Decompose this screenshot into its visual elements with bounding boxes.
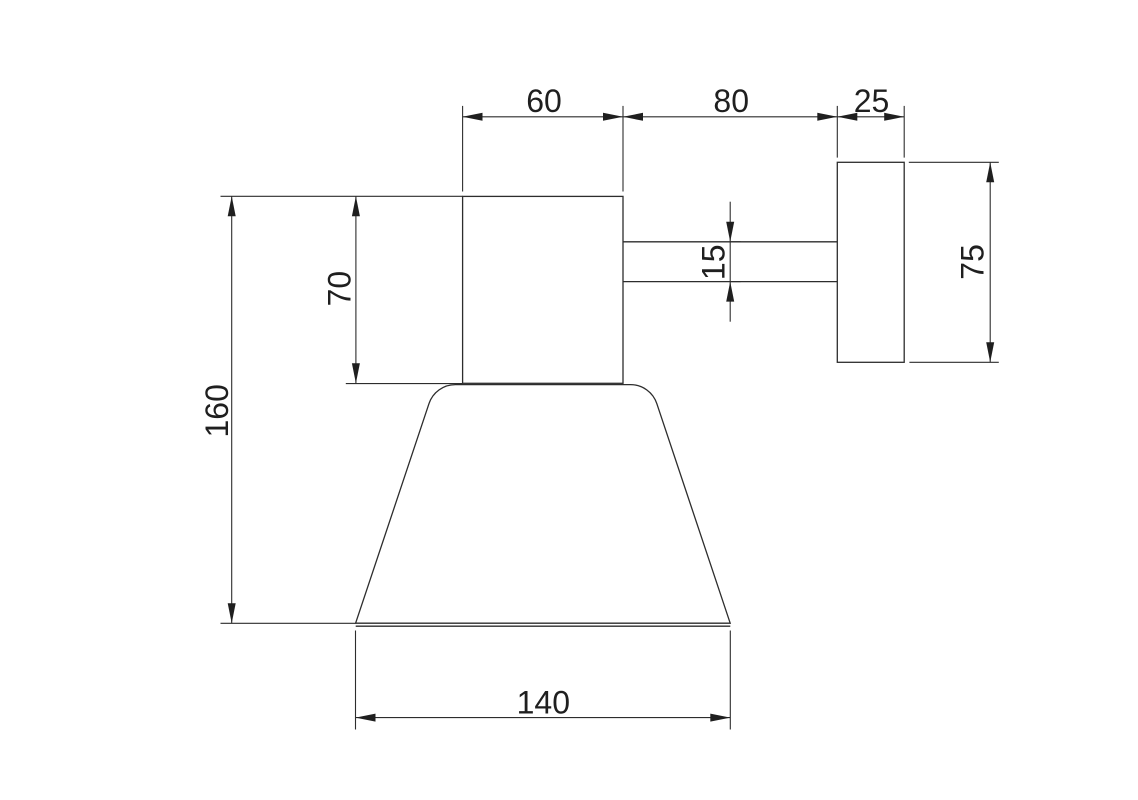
arrow 15 bottom <box>726 282 734 302</box>
extension line shade bottom left <box>355 631 357 730</box>
extension stub arm top <box>730 241 741 243</box>
shade bottom rim line <box>356 625 731 627</box>
lamp body rectangle <box>463 196 623 383</box>
arrow 75 bottom <box>986 342 994 362</box>
svg-text:80: 80 <box>713 83 749 119</box>
arrow 140 left <box>356 714 376 722</box>
extension line plate top right <box>909 161 999 163</box>
arrow 15 top <box>726 222 734 242</box>
arm top edge <box>623 241 837 243</box>
dimension line 15 <box>729 202 731 322</box>
extension line top left <box>221 195 463 197</box>
svg-text:160: 160 <box>199 384 235 437</box>
extension stub arm bottom <box>730 281 741 283</box>
svg-text:60: 60 <box>526 83 562 119</box>
wall plate rectangle <box>837 162 904 362</box>
extension line shade bottom right <box>729 631 731 730</box>
extension line plate left top <box>836 106 838 158</box>
arrow 25 right <box>884 113 904 121</box>
arrow 25 left <box>837 113 857 121</box>
extension line plate right top <box>903 106 905 158</box>
top dimension line <box>463 116 905 118</box>
arrow 70 top <box>352 196 360 216</box>
arrow 140 right <box>710 714 730 722</box>
svg-text:15: 15 <box>695 245 731 281</box>
arrow 80 left <box>623 113 643 121</box>
arrow 60 left <box>463 113 483 121</box>
dimension line 70 <box>355 196 357 383</box>
extension line bottom left <box>221 622 356 624</box>
svg-text:25: 25 <box>854 83 890 119</box>
arm bottom edge <box>623 281 837 283</box>
extension line body bottom <box>346 383 463 385</box>
arrow 70 bottom <box>352 363 360 383</box>
extension line plate bottom right <box>909 361 998 363</box>
svg-text:140: 140 <box>517 684 570 720</box>
shade outline <box>356 385 731 624</box>
arrow 60 right <box>603 113 623 121</box>
arrow 80 right <box>817 113 837 121</box>
arrow 160 top <box>228 196 236 216</box>
arrow 75 top <box>986 162 994 182</box>
svg-text:75: 75 <box>954 244 990 280</box>
extension line body right top <box>622 106 624 192</box>
svg-text:70: 70 <box>322 271 358 307</box>
dimension line 140 <box>356 717 731 719</box>
arrow 160 bottom <box>228 603 236 623</box>
extension line body left top <box>462 106 464 192</box>
dimension line 75 <box>989 162 991 362</box>
dimension line 160 <box>231 196 233 623</box>
